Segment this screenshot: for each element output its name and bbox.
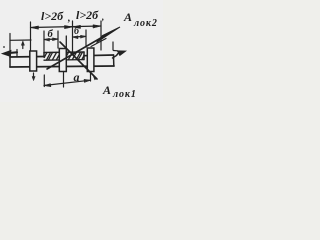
cover plate (hatched) <box>44 52 84 60</box>
left bracket horizontal <box>10 39 31 41</box>
svg-text:l>2б: l>2б <box>41 9 64 23</box>
dimension line a <box>44 79 91 86</box>
plate left end <box>9 57 11 67</box>
small up arrow under bracket <box>21 41 24 49</box>
plate right end <box>113 55 115 66</box>
left force arrow <box>2 50 17 58</box>
label A lok2 <box>123 10 158 29</box>
extension line below cover left <box>43 75 45 87</box>
svg-text:лок1: лок1 <box>112 89 137 100</box>
leader line to A lok1 <box>60 42 97 80</box>
svg-text:A: A <box>123 10 132 24</box>
extension line below rivet3 <box>90 72 92 81</box>
extension line rivet1 / chain left <box>30 22 32 50</box>
extension line chain right <box>100 21 102 50</box>
speck <box>3 46 5 48</box>
rivet R1 <box>30 51 37 71</box>
svg-text:,: , <box>101 12 104 22</box>
stub with arrow below rivet1 <box>32 73 35 81</box>
extension line b2 right <box>85 30 87 47</box>
svg-text:A: A <box>102 83 111 97</box>
svg-text:лок2: лок2 <box>133 18 158 29</box>
right end extension above plate <box>112 42 114 50</box>
extension line b1 left <box>43 31 45 52</box>
label A lok1 <box>102 83 137 100</box>
rivet R2 <box>59 49 66 72</box>
extension line below rivet2 <box>63 72 65 88</box>
rivet R3 <box>87 48 94 72</box>
svg-text:l>2б: l>2б <box>76 8 99 22</box>
dimension line b1 <box>44 38 58 41</box>
right force arrow <box>113 51 127 59</box>
leader line to A lok2 <box>47 27 120 69</box>
svg-text:a: a <box>74 70 80 84</box>
dimension line b2 <box>73 35 87 38</box>
plate top edge <box>10 56 44 59</box>
left bracket vertical <box>9 34 11 51</box>
svg-text:,: , <box>67 13 71 24</box>
svg-text:б: б <box>48 29 54 40</box>
dimension line l>2b chain <box>31 25 102 29</box>
extension line b1 right <box>57 31 59 48</box>
plate bottom edge <box>10 66 114 67</box>
extension line chain middle <box>72 21 74 52</box>
extension line rivet2 right edge <box>65 36 67 48</box>
